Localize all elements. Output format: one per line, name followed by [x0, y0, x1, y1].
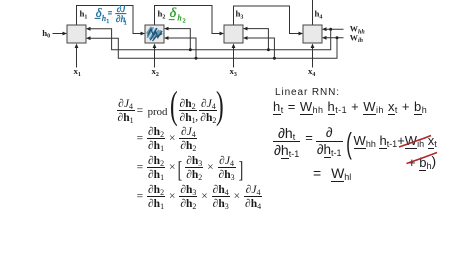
wire x1 input — [76, 48, 78, 68]
junction dot bus1/cell2 — [189, 48, 192, 51]
RNN cell box h1 — [67, 25, 86, 43]
wire bus1 branch to cell2 — [168, 29, 190, 50]
typeset math row 1 — [116, 99, 136, 123]
typeset math row 4 — [137, 185, 264, 209]
arrowhead h0 into cell1 — [63, 32, 68, 36]
handwritten blue delta_h1 = dJ/dh1 — [96, 5, 127, 27]
RNN cell box h4 — [303, 25, 322, 43]
wire cell2 output over top to cell3 — [155, 6, 220, 34]
wire cell1 output over top to cell2 — [77, 6, 141, 34]
handwritten: + b_h ) struck — [408, 154, 436, 170]
arrowhead x1 into cell1 bottom — [75, 44, 79, 49]
red strike through + b_h — [407, 153, 438, 164]
RNN cell box h2 (highlighted) — [145, 25, 164, 43]
wire cell4 output upward off frame — [312, 0, 314, 25]
junction dot bus2/cell3 — [273, 57, 276, 60]
handwritten: Linear RNN heading — [275, 87, 340, 98]
wire x2 input — [154, 48, 156, 68]
wire bus2 branch to cell2 — [168, 38, 196, 58]
RNN cell box h3 — [224, 25, 243, 43]
wire cell3 output over top to cell4 — [234, 6, 299, 34]
arrowhead bus2 into cell1 right — [86, 36, 91, 40]
junction dot bus1/cell3 — [267, 48, 270, 51]
arrowhead bus2 into cell3 right — [243, 36, 248, 40]
arrowhead x3 into cell3 bottom — [232, 44, 236, 49]
typeset math row 3 — [137, 156, 243, 180]
arrowhead W_ih into cell4 right — [322, 36, 327, 40]
wire x3 input — [233, 48, 235, 68]
wire h0 input to cell 1 — [53, 33, 63, 35]
junction dot bus2/cell2 — [195, 57, 198, 60]
wire bus1 branch to cell3 — [247, 29, 268, 50]
arrowhead into cell3 left — [220, 32, 225, 36]
arrowhead into cell2 left — [141, 32, 146, 36]
wire bus2 branch to cell3 — [247, 38, 274, 58]
wire W_ih feed line into cell4 — [326, 37, 343, 39]
junction dot bus2/Wih line — [336, 36, 339, 39]
handwritten: h_t = Whh h_t-1 + Wih x_t + b_h — [273, 99, 427, 114]
typeset math row 2 — [137, 127, 199, 151]
handwritten: = W_hh — [313, 165, 351, 181]
arrowhead x4 into cell4 bottom — [311, 44, 315, 49]
wire bus2 W_ih distribution to cell1 — [90, 38, 337, 58]
arrowhead bus2 into cell2 right — [164, 36, 169, 40]
arrowhead into cell4 left — [299, 32, 304, 36]
handwritten: dht/dht-1 = d/dht-1 ( Whh h_t-1 + Wih x_t — [272, 127, 437, 156]
blue scribble inside cell h2 — [147, 28, 160, 39]
wire x4 input — [312, 48, 314, 68]
red strike through Wih x_t — [399, 136, 431, 148]
wire bus1 W_hh distribution to cell1 — [90, 29, 330, 50]
handwritten green delta_h2 — [170, 6, 186, 24]
arrowhead bus1 into cell2 right — [164, 27, 169, 31]
arrowhead x2 into cell2 bottom — [153, 44, 157, 49]
arrowhead bus1 into cell3 right — [243, 27, 248, 31]
junction dot bus1/Whh line — [329, 28, 332, 31]
arrowhead W_hh into cell4 right — [322, 27, 327, 31]
wire W_hh feed line into cell4 — [326, 28, 343, 30]
arrowhead bus1 into cell1 right — [86, 27, 91, 31]
